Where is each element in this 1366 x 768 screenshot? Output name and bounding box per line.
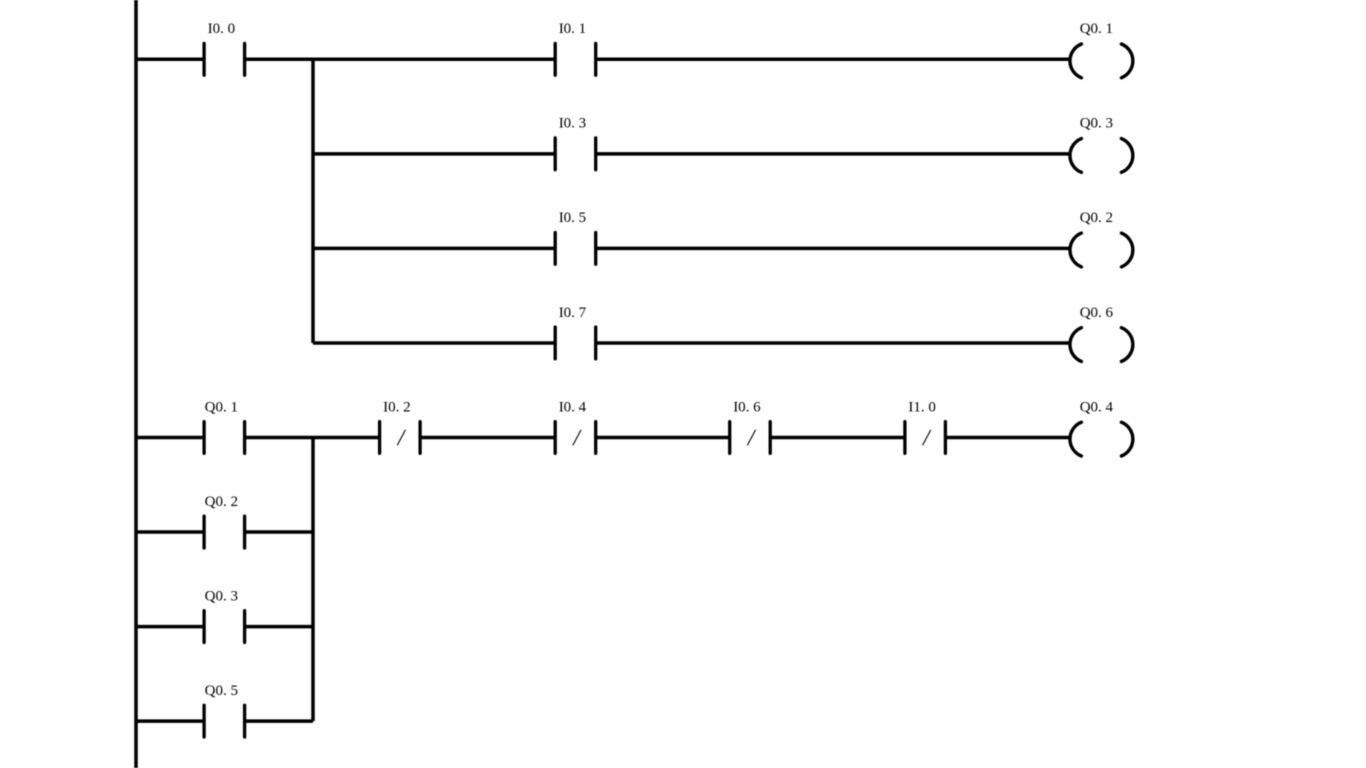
svg-text:I0. 0: I0. 0 (208, 21, 236, 37)
contact I0.7 (555, 327, 596, 359)
wire Q0.5 contact to branch (245, 719, 313, 723)
svg-text:Q0. 2: Q0. 2 (1080, 210, 1113, 226)
contact Q0.3 (204, 611, 245, 643)
wire Q0.1 contact to I0.2 through branch node (245, 436, 380, 440)
wire branch to I0.3 (313, 152, 555, 156)
svg-text:Q0. 6: Q0. 6 (1080, 305, 1114, 321)
contact I0.1 (555, 43, 596, 75)
wire I0.5 to coil Q0.2 (596, 247, 1070, 251)
svg-text:I0. 1: I0. 1 (559, 21, 587, 37)
svg-text:Q0. 4: Q0. 4 (1080, 399, 1114, 415)
wire rail to Q0.3 contact (136, 625, 204, 629)
wire I0.3 to coil Q0.3 (596, 152, 1070, 156)
wire rail to Q0.5 contact (136, 719, 204, 723)
svg-text:I0. 2: I0. 2 (383, 399, 411, 415)
svg-text:I0. 5: I0. 5 (559, 210, 587, 226)
contact I0.6 (NC) (730, 422, 771, 454)
svg-text:Q0. 1: Q0. 1 (1080, 21, 1113, 37)
wire I0.4 to I0.6 (596, 436, 730, 440)
wire rail to Q0.1 contact (136, 436, 204, 440)
coil Q0.3 (1070, 139, 1133, 173)
svg-text:Q0. 5: Q0. 5 (205, 683, 238, 699)
wire Q0.3 contact to branch (245, 625, 313, 629)
contact Q0.2 (204, 516, 245, 548)
wire branch vertical (rows 5-8) (311, 438, 315, 722)
wire rail to I0.0 (136, 58, 204, 62)
wire I0.7 to coil Q0.6 (596, 341, 1070, 345)
svg-text:I0. 3: I0. 3 (559, 116, 587, 132)
wire I1.0 to coil Q0.4 (945, 436, 1070, 440)
wire Q0.2 contact to branch (245, 530, 313, 534)
wire I0.0 to I0.1 through branch node (245, 58, 556, 62)
contact I0.0 (204, 43, 245, 75)
wire rail to Q0.2 contact (136, 530, 204, 534)
contact I1.0 (NC) (905, 422, 946, 454)
contact Q0.1 (204, 422, 245, 454)
svg-text:I0. 4: I0. 4 (559, 399, 587, 415)
svg-text:Q0. 3: Q0. 3 (1080, 116, 1113, 132)
svg-text:Q0. 2: Q0. 2 (205, 494, 238, 510)
wire I0.2 to I0.4 (420, 436, 555, 440)
contact I0.4 (NC) (555, 422, 596, 454)
left power rail (134, 0, 138, 768)
coil Q0.6 (1070, 328, 1133, 362)
wire branch vertical (rows 1-4) (311, 59, 315, 343)
contact Q0.5 (204, 705, 245, 737)
svg-text:Q0. 3: Q0. 3 (205, 588, 238, 604)
contact I0.3 (555, 138, 596, 170)
wire I0.1 to coil Q0.1 (596, 58, 1070, 62)
svg-text:I0. 7: I0. 7 (559, 305, 587, 321)
coil Q0.1 (1070, 44, 1133, 78)
contact I0.2 (NC) (380, 422, 421, 454)
svg-text:I0. 6: I0. 6 (733, 399, 761, 415)
svg-text:Q0. 1: Q0. 1 (205, 399, 238, 415)
contact I0.5 (555, 233, 596, 265)
coil Q0.4 (1070, 422, 1133, 456)
svg-text:I1. 0: I1. 0 (908, 399, 936, 415)
wire I0.6 to I1.0 (770, 436, 905, 440)
wire branch to I0.5 (313, 247, 555, 251)
coil Q0.2 (1070, 233, 1133, 267)
wire branch to I0.7 (313, 341, 555, 345)
